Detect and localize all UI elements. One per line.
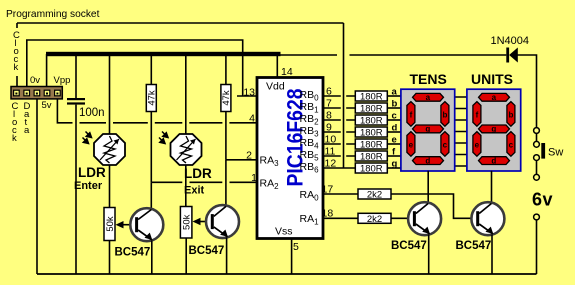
svg-text:e: e xyxy=(409,141,414,150)
svg-text:c: c xyxy=(392,111,397,122)
svg-text:c: c xyxy=(509,141,514,150)
svg-text:f: f xyxy=(476,111,479,120)
svg-text:1: 1 xyxy=(251,172,257,184)
node label Data (below socket, vertical) xyxy=(24,101,31,136)
switch Sw xyxy=(534,128,564,181)
wire UNITS common to Q4 collector xyxy=(491,171,493,206)
svg-text:180R: 180R xyxy=(360,140,383,151)
pin labels 6-12 xyxy=(325,86,337,170)
wire 5v to diode and switch xyxy=(281,55,537,128)
resistor R9 47k xyxy=(221,56,232,160)
svg-text:a: a xyxy=(24,125,30,136)
resistor Rd 180R xyxy=(355,127,401,139)
svg-text:180R: 180R xyxy=(360,104,383,115)
resistor R11 2k2 xyxy=(358,213,391,225)
wire 0v pin3 down to rail xyxy=(36,99,38,274)
wire RA2 line (collector Q1 to pin 1) xyxy=(151,181,257,183)
transistor Q4 BC547 xyxy=(471,202,504,274)
potentiometer VR1 50k xyxy=(104,208,135,275)
svg-text:2k2: 2k2 xyxy=(367,190,382,201)
capacitor C1 100n xyxy=(67,56,105,274)
wires between displays (segment links) xyxy=(455,97,468,166)
svg-text:LDR: LDR xyxy=(78,165,106,180)
node label Clock (above socket, vertical) xyxy=(13,28,22,76)
LDR1 chain riser from 5v bus xyxy=(109,56,111,134)
svg-text:5: 5 xyxy=(293,241,299,253)
svg-text:f: f xyxy=(410,111,413,120)
svg-text:Sw: Sw xyxy=(548,147,563,159)
wire ground rail xyxy=(37,273,537,275)
resistor Re 180R xyxy=(355,139,401,151)
resistor Rg 180R xyxy=(355,163,401,175)
LDR2 chain riser from 5v bus xyxy=(185,56,187,134)
node labels a-g xyxy=(392,87,398,170)
svg-text:d: d xyxy=(392,123,398,134)
svg-text:1N4004: 1N4004 xyxy=(491,35,530,47)
svg-text:g: g xyxy=(491,125,496,134)
svg-text:Programming socket: Programming socket xyxy=(6,9,100,20)
labels RB0-RB6 xyxy=(300,89,320,175)
svg-text:Vss: Vss xyxy=(275,226,293,238)
svg-text:a: a xyxy=(392,87,398,98)
svg-text:LDR: LDR xyxy=(184,166,212,181)
wire Vpp pin5 to PIC pin4 (MCLR) xyxy=(57,99,257,123)
svg-text:4: 4 xyxy=(249,113,255,125)
op-amp/mcu U1 PIC16F628 body xyxy=(257,78,323,239)
svg-text:g: g xyxy=(392,159,398,170)
wire Vdd pin14 riser xyxy=(276,56,278,78)
svg-text:180R: 180R xyxy=(360,128,383,139)
svg-text:47k: 47k xyxy=(147,90,158,106)
wire Vss pin5 to rail xyxy=(291,239,293,275)
svg-text:47k: 47k xyxy=(221,90,232,106)
svg-text:a: a xyxy=(426,93,431,102)
connector programming socket xyxy=(11,87,62,99)
svg-text:UNITS: UNITS xyxy=(471,71,513,87)
svg-text:100n: 100n xyxy=(79,107,105,119)
svg-text:BC547: BC547 xyxy=(391,240,427,252)
svg-text:13: 13 xyxy=(243,87,255,99)
svg-text:180R: 180R xyxy=(360,152,383,163)
resistor Ra 180R xyxy=(355,91,401,103)
wire 5v bus (thick) xyxy=(46,52,281,56)
svg-text:180R: 180R xyxy=(360,116,383,127)
transistor Q2 BC547 xyxy=(206,160,239,274)
svg-text:k: k xyxy=(14,62,19,73)
resistor Rb 180R xyxy=(355,103,401,115)
svg-text:d: d xyxy=(491,156,496,165)
wire LDR1 to pot1 xyxy=(109,165,111,208)
svg-text:d: d xyxy=(425,156,430,165)
svg-text:g: g xyxy=(425,125,430,134)
svg-text:k: k xyxy=(12,133,17,144)
resistor Rc 180R xyxy=(355,115,401,127)
wire LDR2 to pot2 xyxy=(185,165,187,207)
light arrows at LDR2 xyxy=(159,132,168,144)
svg-text:180R: 180R xyxy=(360,92,383,103)
svg-text:e: e xyxy=(475,141,480,150)
svg-text:a: a xyxy=(492,93,497,102)
svg-text:b: b xyxy=(442,111,447,120)
svg-text:5v: 5v xyxy=(42,100,52,111)
wire TENS common to Q3 collector xyxy=(427,171,429,206)
wire 2k2 to Q4 base (jog) xyxy=(391,194,476,218)
svg-text:BC547: BC547 xyxy=(456,240,492,252)
svg-text:c: c xyxy=(443,141,448,150)
display UNITS (7-segment) xyxy=(467,89,521,171)
resistor Rf 180R xyxy=(355,151,401,163)
display TENS (7-segment) xyxy=(401,89,455,171)
wire clock line A (underline to RB6) xyxy=(17,23,344,168)
svg-text:b: b xyxy=(392,99,398,110)
svg-text:e: e xyxy=(392,135,397,146)
light arrows at LDR1 xyxy=(83,132,92,144)
svg-text:TENS: TENS xyxy=(410,71,447,87)
LDR2 Exit (octagon symbol) xyxy=(171,134,202,165)
wire data line B (pin2 to pin13) xyxy=(27,40,257,96)
svg-text:BC547: BC547 xyxy=(189,245,225,257)
svg-text:6v: 6v xyxy=(532,189,553,209)
wire 5v pin4 riser xyxy=(46,54,48,87)
wire pin18 to 2k2 xyxy=(323,217,358,219)
node label Clock (below socket, vertical) xyxy=(12,101,19,144)
transistor Q1 BC547 xyxy=(130,182,163,274)
wires RB0-RB6 rows (left of resistors, with break at clock vertical) xyxy=(323,96,355,168)
svg-text:50k: 50k xyxy=(181,214,192,230)
resistor R8 47k xyxy=(146,56,157,182)
svg-text:2k2: 2k2 xyxy=(367,214,382,225)
svg-text:b: b xyxy=(508,111,513,120)
wire RA3 line (collector Q2 to pin 2) xyxy=(226,159,257,161)
LDR1 Enter (octagon symbol) xyxy=(94,134,125,165)
svg-text:50k: 50k xyxy=(105,216,116,232)
wire 2k2 to Q3 base xyxy=(391,217,413,219)
svg-text:BC547: BC547 xyxy=(115,247,151,259)
transistor Q3 BC547 xyxy=(408,202,441,274)
potentiometer VR2 50k xyxy=(180,207,211,275)
resistor R10 2k2 xyxy=(358,189,391,201)
wire pin17 to 2k2 xyxy=(323,193,358,195)
diode D1 1N4004 xyxy=(491,35,530,63)
svg-text:Enter: Enter xyxy=(74,180,103,192)
svg-text:2: 2 xyxy=(246,149,252,161)
svg-text:Exit: Exit xyxy=(184,185,205,197)
svg-text:0v: 0v xyxy=(30,75,40,86)
battery 6v terminals xyxy=(532,189,553,274)
svg-text:180R: 180R xyxy=(360,164,383,175)
svg-text:Vpp: Vpp xyxy=(54,75,71,86)
